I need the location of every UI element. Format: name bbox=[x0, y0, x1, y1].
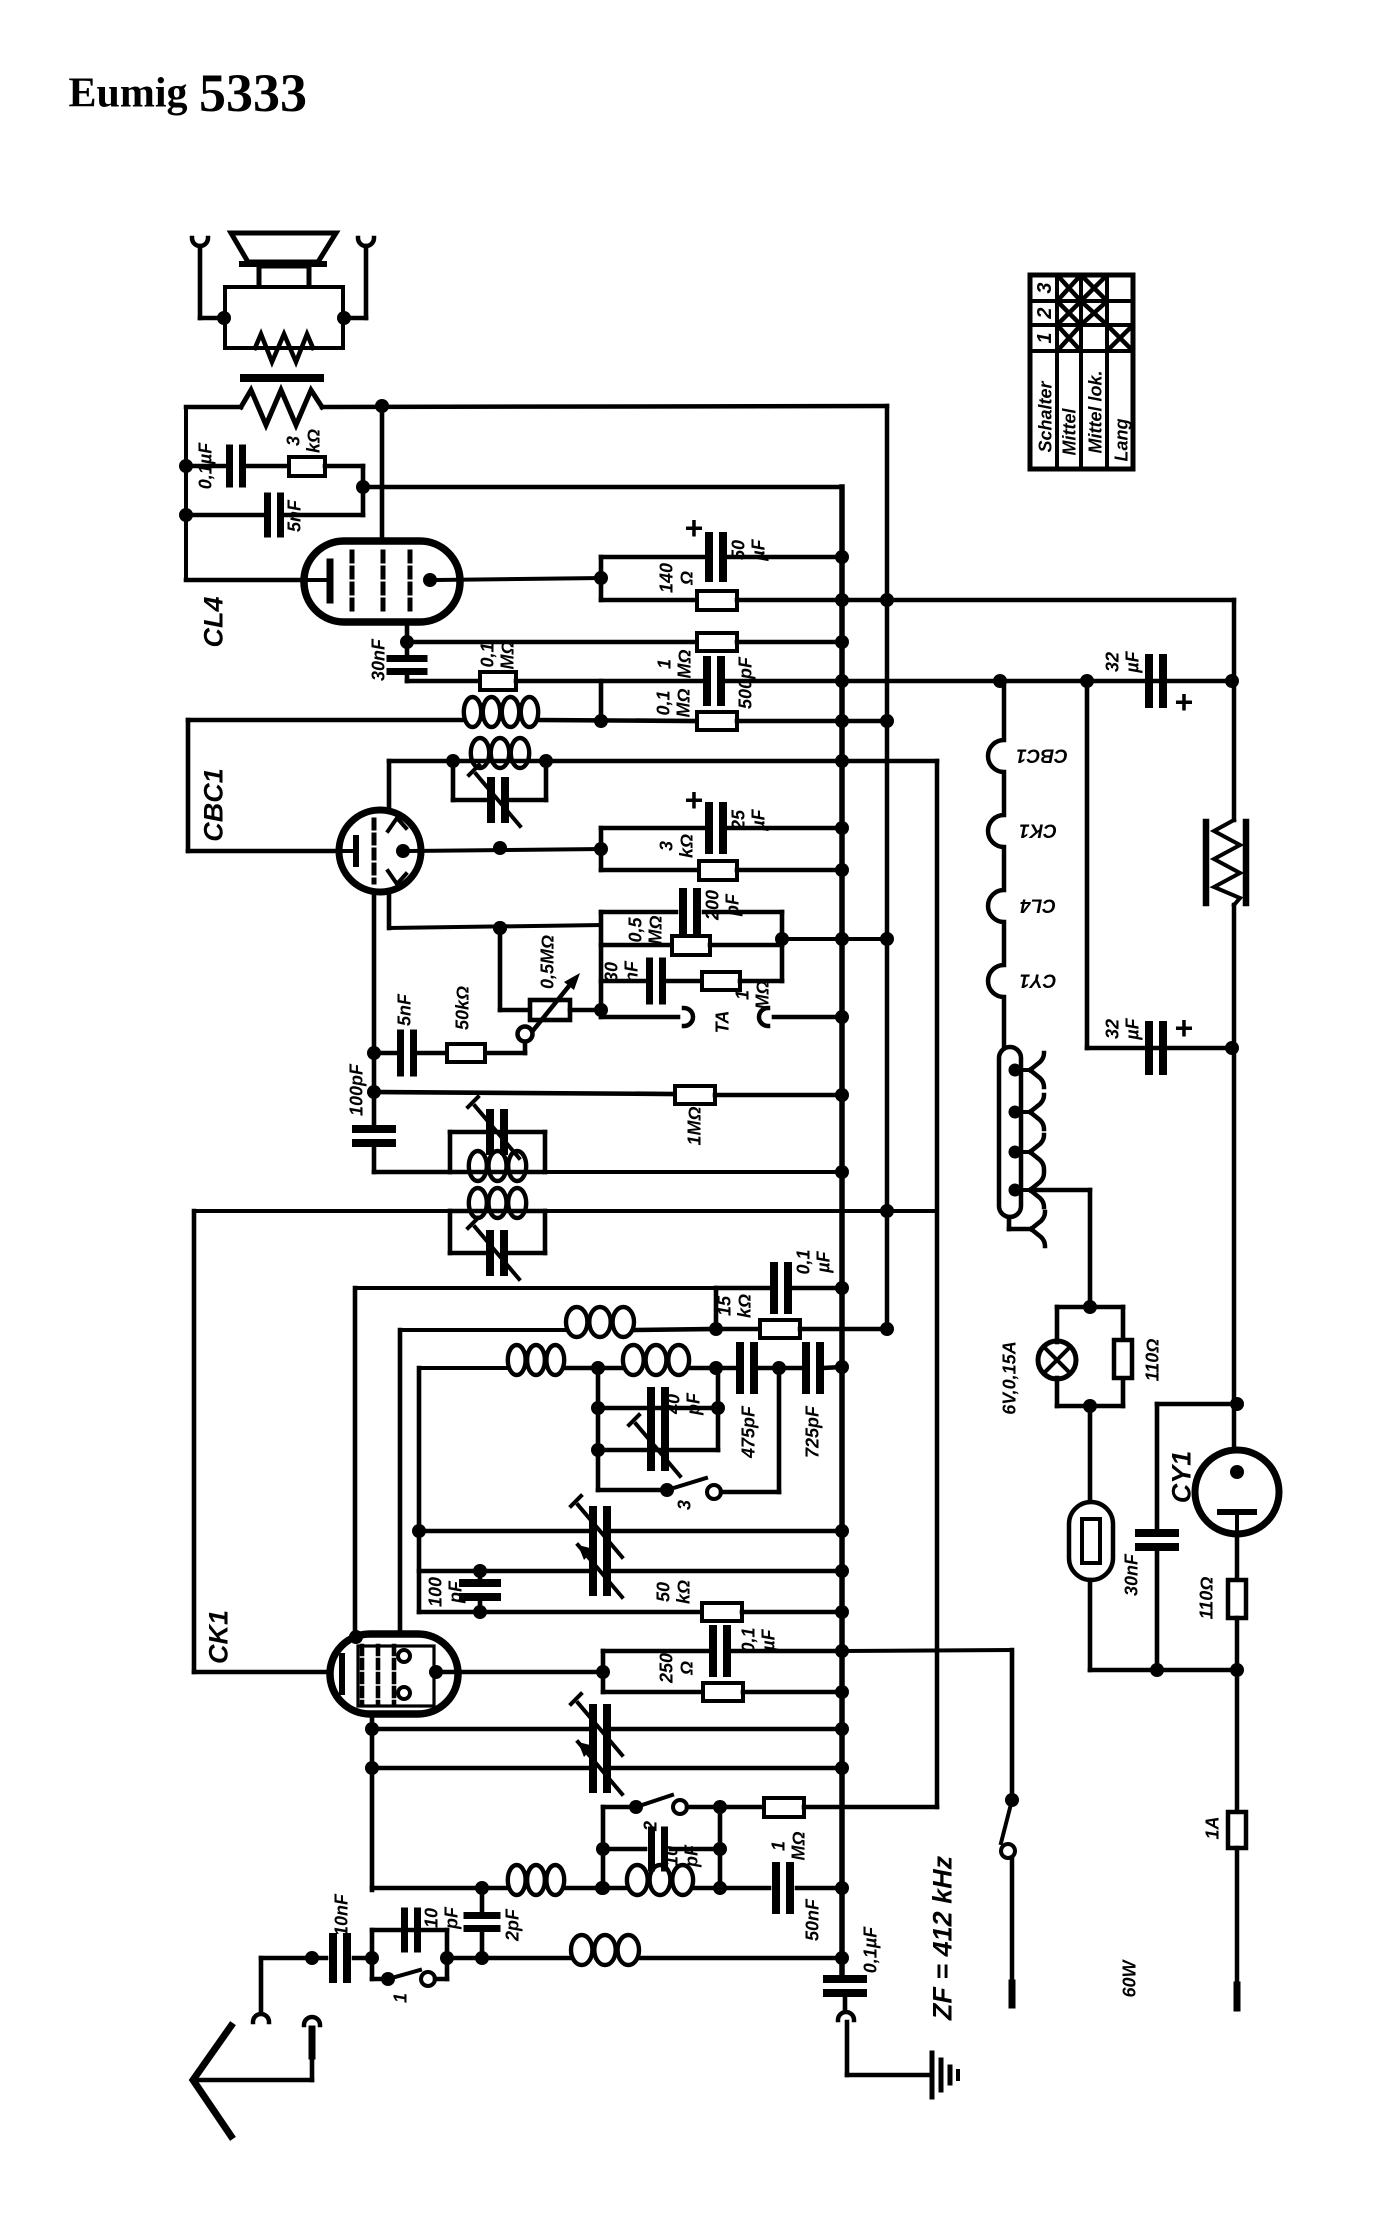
svg-text:CBC1: CBC1 bbox=[199, 768, 229, 842]
svg-text:pF: pF bbox=[445, 1580, 465, 1604]
svg-text:pF: pF bbox=[683, 1392, 703, 1416]
svg-text:CBC1: CBC1 bbox=[1016, 744, 1068, 765]
svg-text:5nF: 5nF bbox=[394, 993, 414, 1026]
svg-text:30nF: 30nF bbox=[1121, 1553, 1141, 1596]
svg-text:MΩ: MΩ bbox=[674, 649, 694, 678]
svg-text:50: 50 bbox=[728, 540, 748, 560]
svg-text:kΩ: kΩ bbox=[673, 1580, 693, 1604]
svg-text:CL4: CL4 bbox=[199, 596, 229, 647]
svg-text:Lang: Lang bbox=[1111, 418, 1131, 461]
svg-text:nF: nF bbox=[621, 960, 641, 983]
svg-text:10nF: 10nF bbox=[331, 1893, 351, 1936]
svg-text:+: + bbox=[685, 510, 704, 546]
svg-text:0,1: 0,1 bbox=[653, 690, 673, 715]
svg-text:ZF = 412 kHz: ZF = 412 kHz bbox=[928, 1855, 958, 2021]
svg-text:1: 1 bbox=[768, 1841, 788, 1851]
svg-text:60W: 60W bbox=[1119, 1958, 1139, 1997]
svg-text:10: 10 bbox=[421, 1908, 441, 1928]
svg-text:0,1: 0,1 bbox=[738, 1627, 758, 1652]
svg-text:MΩ: MΩ bbox=[752, 980, 772, 1009]
svg-text:Ω: Ω bbox=[676, 571, 696, 586]
svg-text:0,1: 0,1 bbox=[793, 1249, 813, 1274]
svg-text:30: 30 bbox=[601, 962, 621, 982]
svg-text:pF: pF bbox=[722, 893, 742, 917]
svg-text:kΩ: kΩ bbox=[734, 1294, 754, 1318]
svg-text:kΩ: kΩ bbox=[676, 834, 696, 858]
svg-text:Ω: Ω bbox=[676, 1661, 696, 1676]
svg-text:0,1: 0,1 bbox=[477, 642, 497, 667]
svg-text:15: 15 bbox=[714, 1295, 734, 1316]
svg-text:500pF: 500pF bbox=[735, 656, 755, 709]
svg-text:1: 1 bbox=[390, 1993, 410, 2003]
svg-text:475pF: 475pF bbox=[738, 1405, 758, 1459]
svg-text:CK1: CK1 bbox=[204, 1610, 234, 1664]
svg-text:0,5: 0,5 bbox=[625, 917, 645, 943]
svg-text:32: 32 bbox=[1102, 652, 1122, 672]
svg-text:0,1µF: 0,1µF bbox=[195, 442, 215, 489]
svg-text:0,5MΩ: 0,5MΩ bbox=[537, 935, 557, 989]
svg-text:2pF: 2pF bbox=[502, 1908, 522, 1942]
svg-text:100: 100 bbox=[425, 1577, 445, 1607]
svg-text:725pF: 725pF bbox=[802, 1405, 822, 1458]
svg-text:40: 40 bbox=[663, 1394, 683, 1415]
svg-text:140: 140 bbox=[656, 563, 676, 593]
svg-text:Eumig: Eumig bbox=[68, 71, 187, 117]
svg-text:5nF: 5nF bbox=[284, 499, 304, 532]
svg-text:200: 200 bbox=[702, 890, 722, 921]
svg-text:1: 1 bbox=[732, 990, 752, 1000]
svg-text:50kΩ: 50kΩ bbox=[452, 986, 472, 1030]
svg-text:µF: µF bbox=[1122, 650, 1142, 673]
svg-text:2: 2 bbox=[1034, 307, 1056, 319]
svg-text:30nF: 30nF bbox=[368, 638, 388, 681]
svg-text:1MΩ: 1MΩ bbox=[684, 1106, 704, 1145]
svg-text:µF: µF bbox=[813, 1250, 833, 1273]
svg-text:+: + bbox=[685, 782, 704, 818]
svg-text:µF: µF bbox=[758, 1628, 778, 1651]
svg-text:pF: pF bbox=[441, 1906, 461, 1930]
svg-text:3: 3 bbox=[674, 1500, 694, 1510]
svg-text:3: 3 bbox=[1034, 282, 1056, 293]
svg-text:100pF: 100pF bbox=[346, 1063, 366, 1116]
svg-text:+: + bbox=[1175, 1010, 1194, 1046]
svg-text:1: 1 bbox=[1034, 332, 1056, 343]
svg-text:5333: 5333 bbox=[199, 63, 307, 123]
svg-text:MΩ: MΩ bbox=[497, 640, 517, 669]
svg-text:10: 10 bbox=[661, 1846, 681, 1866]
svg-text:50nF: 50nF bbox=[802, 1898, 822, 1941]
svg-text:50: 50 bbox=[653, 1582, 673, 1602]
svg-text:TA: TA bbox=[712, 1011, 732, 1034]
svg-text:MΩ: MΩ bbox=[645, 915, 665, 944]
svg-text:CK1: CK1 bbox=[1019, 819, 1057, 840]
svg-text:25: 25 bbox=[728, 809, 748, 831]
svg-text:µF: µF bbox=[1122, 1017, 1142, 1040]
svg-text:0,1µF: 0,1µF bbox=[860, 1926, 880, 1973]
svg-text:+: + bbox=[1175, 684, 1194, 720]
svg-text:CY1: CY1 bbox=[1167, 1451, 1197, 1504]
svg-text:110Ω: 110Ω bbox=[1142, 1339, 1162, 1382]
svg-text:1A: 1A bbox=[1202, 1816, 1222, 1839]
svg-text:Mittel lok.: Mittel lok. bbox=[1085, 370, 1105, 453]
svg-text:MΩ: MΩ bbox=[673, 688, 693, 717]
svg-text:Mittel: Mittel bbox=[1059, 408, 1079, 456]
svg-text:kΩ: kΩ bbox=[303, 429, 323, 453]
svg-text:3: 3 bbox=[656, 841, 676, 851]
svg-text:MΩ: MΩ bbox=[788, 1831, 808, 1860]
svg-text:µF: µF bbox=[748, 538, 768, 561]
svg-text:CY1: CY1 bbox=[1020, 969, 1057, 990]
svg-text:Schalter: Schalter bbox=[1035, 380, 1055, 452]
svg-text:CL4: CL4 bbox=[1020, 894, 1056, 915]
svg-text:110Ω: 110Ω bbox=[1196, 1577, 1216, 1620]
svg-text:1: 1 bbox=[654, 659, 674, 669]
svg-text:3: 3 bbox=[283, 436, 303, 446]
svg-text:32: 32 bbox=[1102, 1019, 1122, 1039]
svg-text:6V,0,15A: 6V,0,15A bbox=[999, 1341, 1019, 1414]
svg-text:µF: µF bbox=[748, 808, 768, 831]
svg-text:250: 250 bbox=[656, 1653, 676, 1684]
